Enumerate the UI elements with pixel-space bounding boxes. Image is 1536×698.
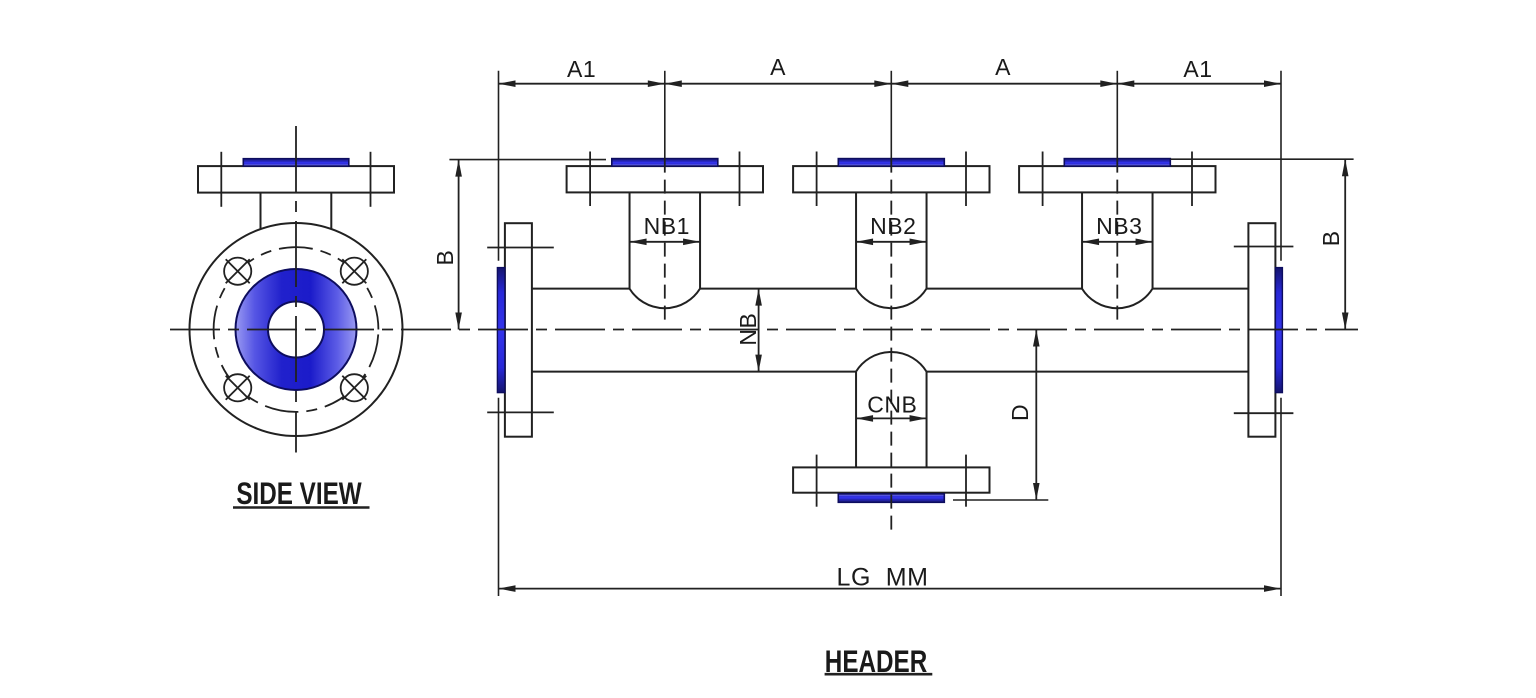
D extension line	[953, 499, 1048, 501]
extension line branch NB2 center	[890, 71, 892, 159]
branch NB3 neck walls	[1082, 192, 1153, 288]
branch NB1 centerline	[664, 159, 666, 323]
side view top flange blue gasket cap	[243, 159, 348, 166]
NB dimension line	[755, 289, 762, 372]
main horizontal centerline	[170, 329, 1358, 331]
left end flange blue facing strip	[497, 268, 505, 393]
branch NB1 neck walls	[630, 192, 701, 288]
label NB	[735, 313, 761, 346]
side view nozzle neck lines	[261, 193, 332, 230]
svg-text:NB1: NB1	[644, 213, 690, 239]
svg-text:D: D	[1007, 404, 1033, 421]
left flange bolt tick bottom	[487, 411, 554, 413]
svg-text:CNB: CNB	[867, 391, 917, 417]
svg-text:NB3: NB3	[1096, 213, 1142, 239]
dimension NB3 line and arrows	[1082, 239, 1153, 246]
svg-text:NB: NB	[735, 313, 761, 346]
label A1 right	[1183, 56, 1212, 82]
label B left	[432, 250, 458, 266]
CNB flange	[793, 467, 989, 492]
branch NB1 blue gasket cap	[612, 159, 718, 167]
HEADER title	[825, 644, 933, 679]
label A left	[770, 54, 786, 80]
svg-text:A: A	[995, 54, 1011, 80]
header pipe top line	[532, 288, 1249, 290]
dimension CNB line and arrows	[856, 415, 927, 422]
svg-text:NB2: NB2	[870, 213, 916, 239]
label D	[1007, 404, 1033, 421]
branch NB1 flange	[567, 166, 763, 192]
side view bore hole	[268, 302, 324, 358]
right end flange blue facing strip	[1275, 268, 1282, 393]
left end flange	[505, 223, 532, 437]
CNB blue gasket cap	[838, 494, 944, 502]
svg-text:A1: A1	[567, 56, 596, 82]
left B extension line	[449, 159, 606, 161]
label A right	[995, 54, 1011, 80]
SIDE VIEW title	[233, 476, 370, 511]
extension line left flange face	[498, 71, 500, 596]
side view bolt circle (dashed)	[214, 247, 379, 412]
branch NB2 weld dome	[856, 289, 927, 309]
left flange bolt tick top	[487, 247, 554, 249]
D dimension line	[1033, 330, 1040, 501]
branch NB3 centerline	[1116, 159, 1118, 323]
svg-text:B: B	[1318, 230, 1344, 246]
right flange bolt tick bottom	[1234, 412, 1294, 414]
branch NB2 bolt ticks	[817, 152, 966, 207]
branch NB2 / CNB centerline	[890, 159, 892, 533]
label A1 left	[567, 56, 596, 82]
side view top flange	[198, 166, 394, 193]
label LG MM	[837, 563, 929, 591]
branch NB1 bolt ticks	[590, 152, 739, 207]
dimension chain line A1-A-A-A1	[499, 80, 1282, 87]
branch NB2 flange	[793, 166, 989, 192]
svg-text:A1: A1	[1183, 56, 1212, 82]
svg-text:LG MM: LG MM	[837, 563, 929, 591]
branch NB2 blue gasket cap	[838, 159, 944, 167]
left B dimension line	[455, 160, 462, 330]
dimension NB1 line and arrows	[630, 239, 701, 246]
branch NB3 bolt ticks	[1043, 152, 1192, 207]
label CNB	[867, 391, 917, 417]
header pipe bottom line	[532, 371, 1249, 373]
extension line branch NB3 center	[1116, 71, 1118, 159]
label NB3	[1096, 213, 1142, 239]
branch NB3 blue gasket cap	[1064, 159, 1170, 167]
side view blue raised face annulus	[236, 269, 357, 390]
branch NB1 weld dome	[630, 289, 701, 309]
side view flange bolt tick left	[220, 152, 222, 207]
svg-text:B: B	[432, 250, 458, 266]
label B right	[1318, 230, 1344, 246]
dimension NB2 line and arrows	[856, 239, 927, 246]
label NB2	[870, 213, 916, 239]
extension line branch NB1 center	[664, 71, 666, 159]
CNB bolt ticks	[817, 455, 966, 507]
branch NB3 flange	[1019, 166, 1215, 192]
branch NB2 neck walls	[856, 192, 927, 288]
CNB weld dome	[856, 352, 927, 372]
right end flange	[1248, 223, 1275, 437]
svg-text:SIDE VIEW: SIDE VIEW	[236, 476, 362, 511]
CNB neck walls	[856, 372, 927, 468]
right flange bolt tick top	[1234, 246, 1294, 248]
label NB1	[644, 213, 690, 239]
side view bolt holes with cross marks	[224, 258, 368, 402]
side view flange bolt tick right	[370, 152, 372, 207]
branch NB3 weld dome	[1082, 289, 1153, 309]
svg-text:A: A	[770, 54, 786, 80]
LG dimension line	[499, 585, 1282, 592]
right B extension line	[1170, 158, 1353, 160]
right B dimension line	[1342, 159, 1349, 329]
extension line right flange face	[1280, 71, 1282, 596]
side view outer flange circle	[190, 223, 403, 436]
side view vertical centerline	[295, 126, 297, 453]
